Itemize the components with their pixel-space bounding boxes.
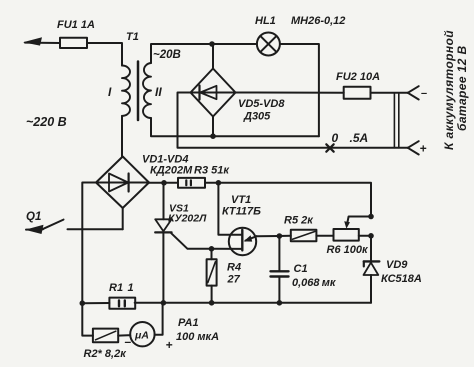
wire: [121, 116, 123, 157]
resistor R1 (shunt): [109, 298, 135, 309]
ammeter PA1: [118, 303, 162, 347]
node VT1 b2 tap: [216, 180, 222, 186]
zener diode VD9: [364, 236, 380, 303]
node VS1 anode tap: [161, 180, 167, 186]
svg-text:–: –: [421, 88, 427, 100]
wire DC plus rail: [149, 182, 178, 184]
label HL1 MH26-0,12: [255, 15, 345, 27]
wire: [82, 302, 109, 304]
svg-text:К аккумуляторной: К аккумуляторной: [442, 30, 456, 150]
svg-text:VD5-VD8: VD5-VD8: [238, 98, 285, 110]
transformer T1 secondary winding II: [143, 63, 151, 118]
rectifier bridge VD5-VD8: [191, 69, 236, 117]
svg-text:батарее 12 В: батарее 12 В: [455, 45, 469, 131]
resistor R4: [207, 249, 217, 303]
node wiper tie: [368, 214, 374, 220]
node R4 bottom: [209, 300, 215, 306]
node top AC: [209, 41, 215, 47]
wire: [205, 182, 218, 184]
svg-text:100 мкА: 100 мкА: [176, 331, 219, 343]
svg-text:T1: T1: [126, 31, 139, 43]
svg-text:μA: μA: [134, 330, 149, 342]
svg-text:R2* 8,2к: R2* 8,2к: [84, 348, 128, 360]
transformer T1 primary winding I: [122, 66, 130, 116]
wire top control rail: [218, 183, 371, 217]
svg-text:Д305: Д305: [243, 111, 271, 123]
svg-text:КТ117Б: КТ117Б: [222, 206, 261, 218]
svg-text:FU1 1A: FU1 1A: [57, 19, 95, 31]
svg-text:+: +: [166, 338, 173, 352]
node C1 bottom: [277, 300, 283, 306]
wire bottom common rail: [135, 302, 371, 304]
label R1 1: [109, 282, 134, 294]
fuse FU2: [344, 87, 371, 99]
resistor R2: [93, 329, 118, 343]
svg-text:FU2 10A: FU2 10A: [336, 71, 380, 83]
svg-text:C1: C1: [294, 263, 308, 275]
svg-text:VD9: VD9: [386, 259, 408, 271]
capacitor C1: [271, 236, 289, 303]
wire left DC rail: [82, 183, 96, 336]
wire: [87, 43, 122, 66]
connector X1 (double bars): [394, 93, 398, 148]
svg-text:R1: R1: [109, 282, 123, 294]
svg-text:.5A: .5A: [350, 131, 369, 145]
svg-text:R3 51к: R3 51к: [194, 165, 230, 177]
potentiometer R6: [334, 217, 372, 241]
node R6-VD9: [368, 233, 374, 239]
svg-text:II: II: [155, 85, 162, 99]
svg-text:МН26-0,12: МН26-0,12: [291, 15, 345, 27]
svg-text:R4: R4: [227, 262, 241, 274]
wire lamp to AC bottom: [280, 44, 319, 136]
wire b1 lead: [212, 248, 243, 250]
resistor R3: [178, 178, 205, 188]
wire secondary top to node: [151, 44, 212, 63]
svg-text:R6 100к: R6 100к: [327, 244, 369, 256]
svg-text:КД202М: КД202М: [150, 165, 193, 177]
transformer core: [137, 62, 140, 121]
wire: [371, 92, 408, 94]
wire minus output: [178, 93, 408, 148]
node VS1 cathode-meter: [161, 300, 167, 306]
break mark x on minus wire: [326, 144, 333, 151]
wire plus output: [236, 92, 344, 94]
svg-text:КУ202Л: КУ202Л: [168, 213, 207, 225]
svg-text:0,068 мк: 0,068 мк: [292, 277, 337, 289]
node left rail R1: [80, 300, 86, 306]
svg-text:~220 В: ~220 В: [26, 115, 67, 129]
svg-text:R5 2к: R5 2к: [284, 215, 314, 227]
unijunction transistor VT1: [218, 183, 279, 255]
svg-text:PA1: PA1: [178, 317, 199, 329]
fuse FU1: [60, 38, 87, 48]
thyristor VS1: [155, 183, 211, 303]
mains arrow (top, ~220V): [23, 37, 60, 45]
wire: [212, 43, 257, 45]
switch Q1: [25, 208, 123, 234]
svg-text:–: –: [125, 335, 132, 349]
svg-text:КС518А: КС518А: [381, 273, 422, 285]
svg-text:1: 1: [128, 282, 134, 294]
wire bridge bottom lead: [212, 117, 214, 137]
svg-text:VT1: VT1: [231, 194, 251, 206]
svg-text:0: 0: [332, 131, 339, 145]
terminal fork plus: [408, 141, 419, 154]
rectifier bridge VD1-VD4: [96, 157, 149, 209]
svg-text:HL1: HL1: [255, 15, 276, 27]
svg-text:~20В: ~20В: [153, 49, 181, 61]
wire bridge top lead: [212, 44, 214, 69]
svg-text:Q1: Q1: [26, 211, 41, 223]
node bottom AC: [210, 133, 216, 139]
label 0 .5A: [332, 131, 369, 145]
wire AC bottom line: [151, 118, 319, 136]
lamp HL1: [257, 33, 280, 56]
node gate-R4-b1: [209, 246, 215, 252]
svg-text:27: 27: [227, 274, 241, 286]
terminal fork minus: [408, 86, 419, 99]
node emitter-C1-R5: [277, 233, 283, 239]
svg-text:+: +: [420, 142, 427, 156]
resistor R5: [279, 230, 333, 241]
